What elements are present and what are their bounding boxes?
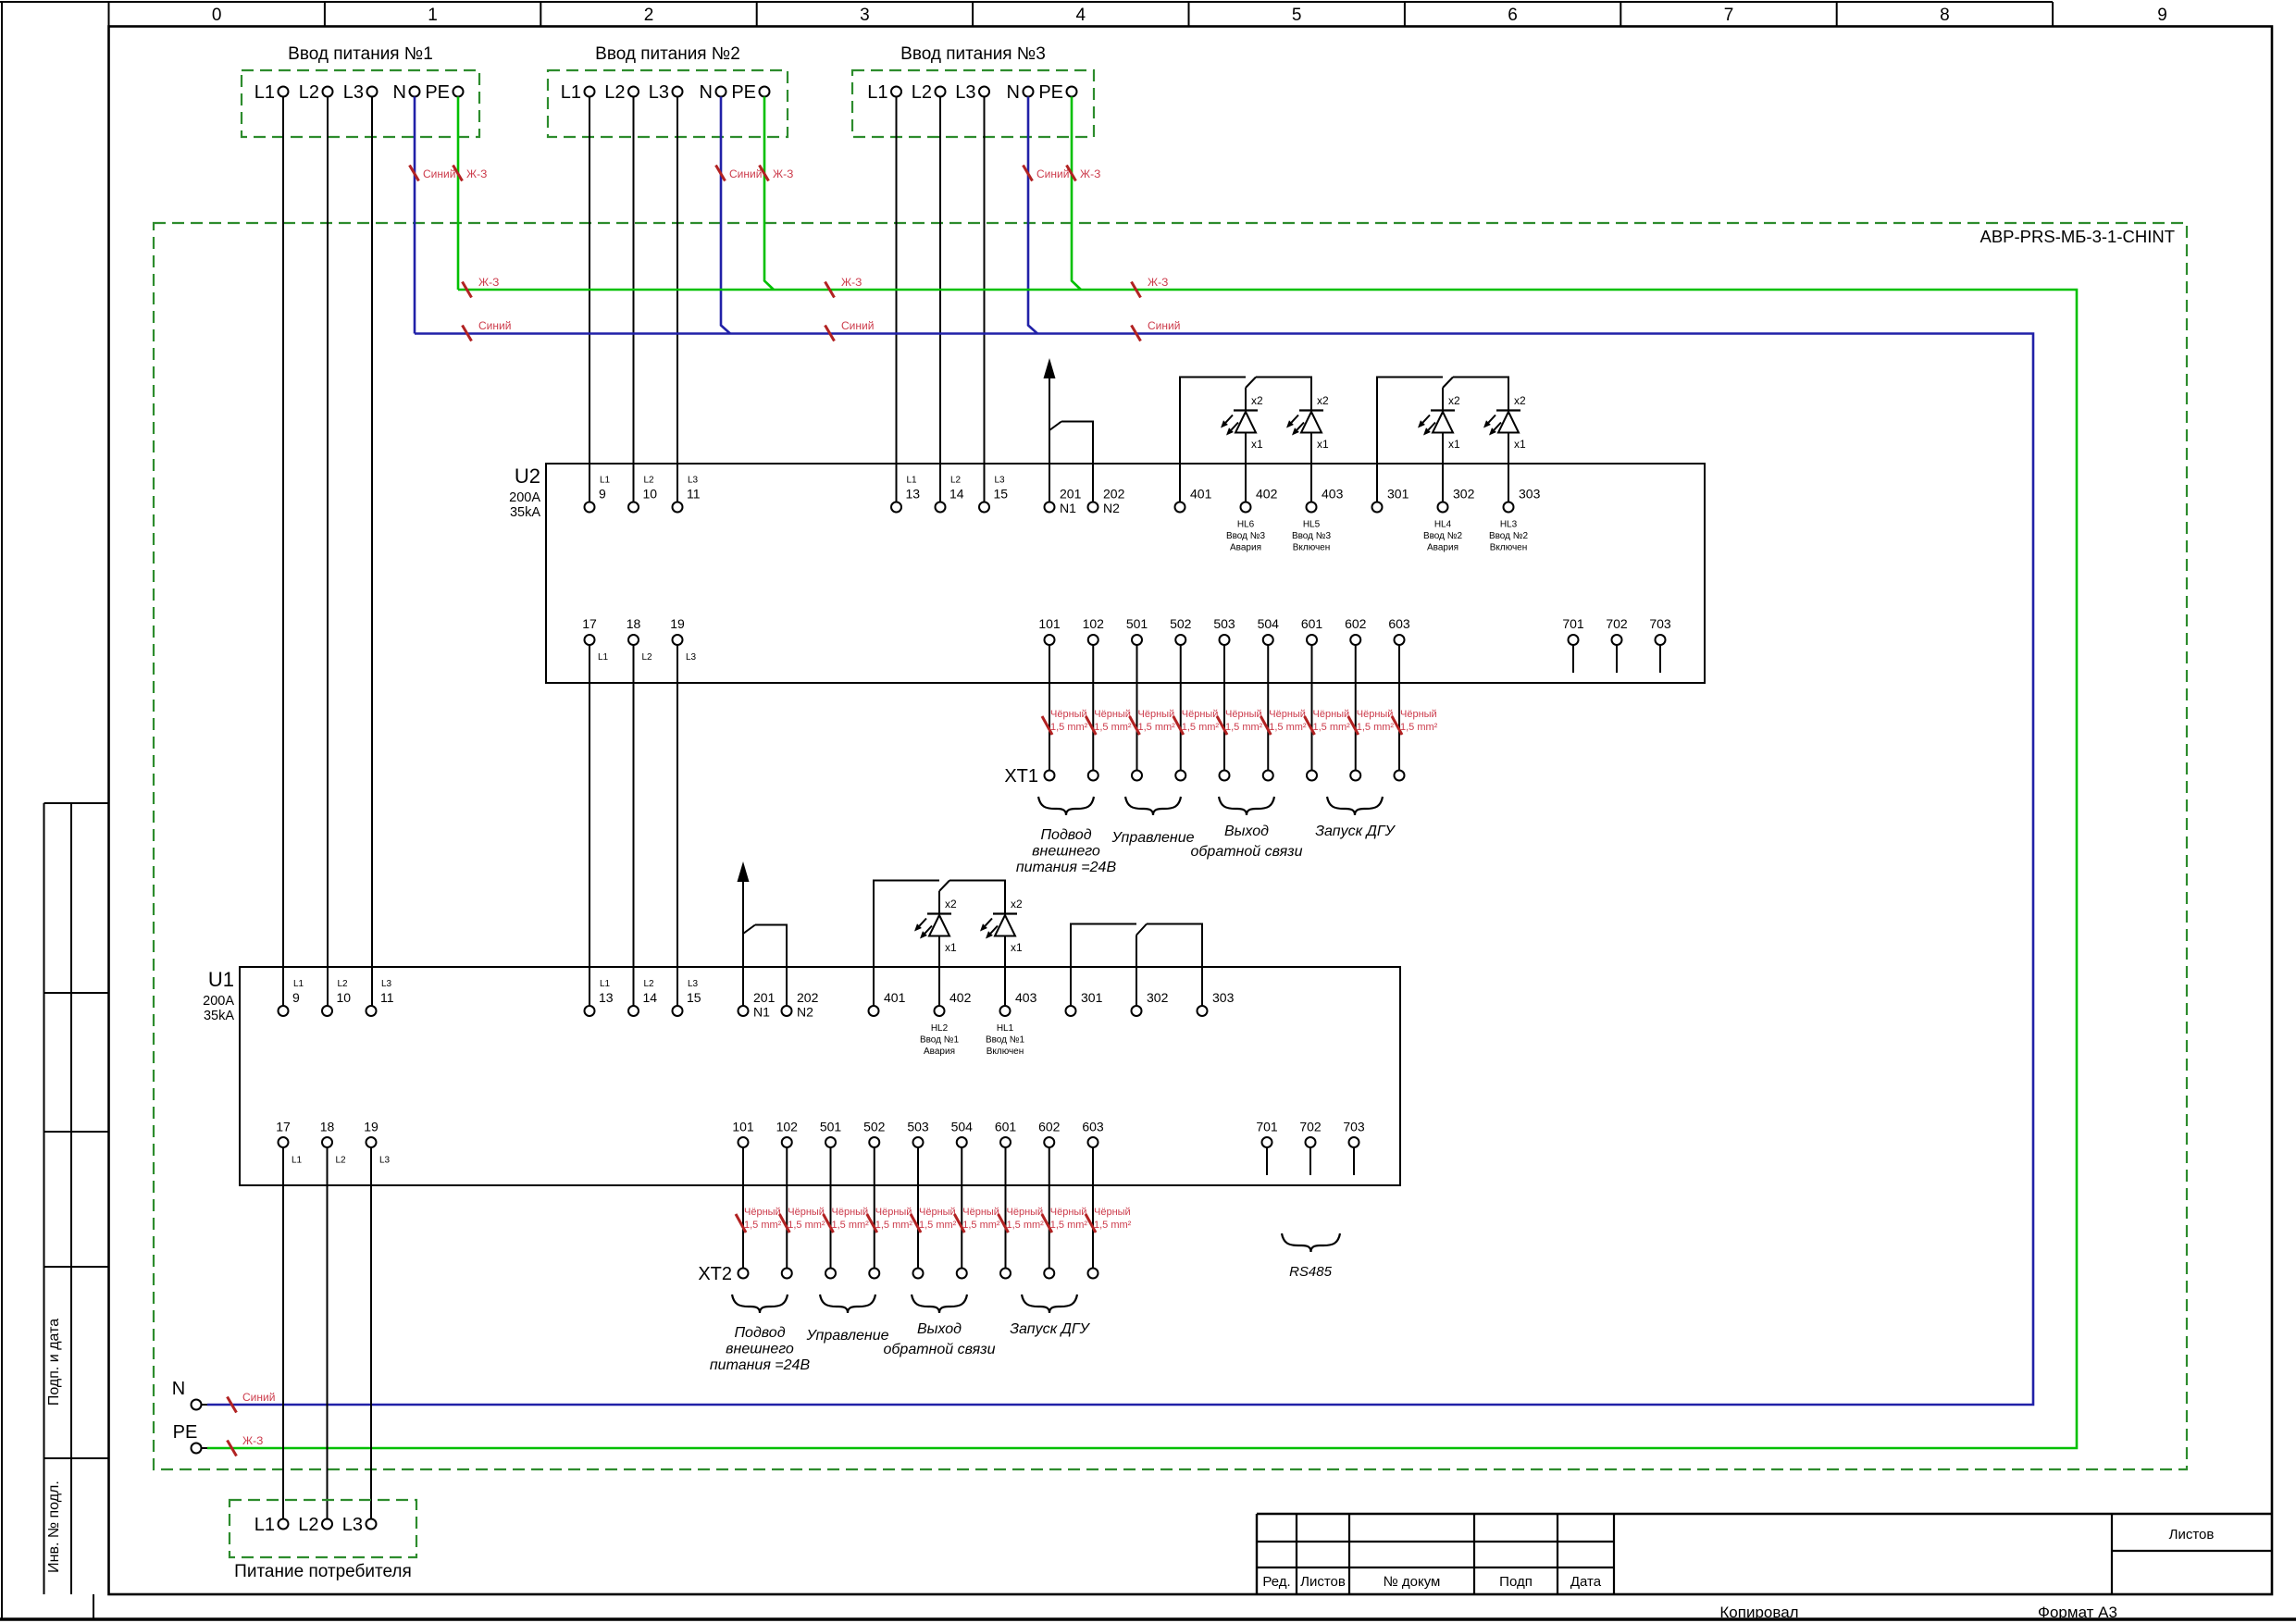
wire U1 17/18/19 to consumer L1 bbox=[282, 1147, 284, 1519]
svg-text:L3: L3 bbox=[686, 652, 697, 663]
U1 pin 701 bbox=[1256, 1120, 1278, 1148]
svg-text:501: 501 bbox=[820, 1120, 842, 1134]
svg-text:7: 7 bbox=[1724, 6, 1734, 25]
svg-text:1,5 mm²: 1,5 mm² bbox=[1357, 722, 1395, 733]
U1 pin 10 (L2) bbox=[322, 979, 351, 1016]
wire label Синий (input 2 N) bbox=[716, 166, 763, 181]
svg-text:701: 701 bbox=[1256, 1120, 1278, 1134]
svg-text:Включен: Включен bbox=[1490, 543, 1528, 553]
svg-text:Листов: Листов bbox=[2169, 1527, 2215, 1542]
changeover diagonal at 302 bbox=[1136, 924, 1147, 935]
svg-text:Запуск ДГУ: Запуск ДГУ bbox=[1010, 1321, 1090, 1337]
svg-text:101: 101 bbox=[732, 1120, 754, 1134]
svg-text:x1: x1 bbox=[1317, 438, 1329, 451]
wire input1 N (blue) down to N bus bbox=[414, 97, 416, 334]
wire label Ж-З on PE bus bbox=[825, 276, 863, 298]
U1 pin 14 (L2) bbox=[628, 979, 657, 1016]
svg-text:HL1: HL1 bbox=[997, 1023, 1014, 1034]
U1 pin 11 (L3) bbox=[366, 979, 394, 1016]
svg-text:N1: N1 bbox=[1060, 501, 1076, 515]
svg-text:L2: L2 bbox=[950, 476, 962, 486]
svg-text:N: N bbox=[700, 82, 713, 103]
svg-text:1,5 mm²: 1,5 mm² bbox=[1400, 722, 1438, 733]
U2 pin 18 (L2) bbox=[627, 616, 652, 663]
group brace: Управление (XT1) bbox=[1125, 797, 1181, 815]
svg-text:Чёрный: Чёрный bbox=[962, 1207, 999, 1218]
svg-text:Синий: Синий bbox=[478, 319, 511, 332]
svg-text:17: 17 bbox=[582, 616, 597, 631]
svg-text:питания =24В: питания =24В bbox=[710, 1357, 811, 1373]
U2 pin 102 bbox=[1083, 616, 1105, 645]
consumer box Питание потребителя bbox=[230, 1500, 416, 1581]
N bus (blue) across cabinet bbox=[207, 334, 2033, 1406]
U2 pin 702 bbox=[1606, 616, 1628, 645]
svg-text:L1: L1 bbox=[867, 82, 887, 103]
wire U1 301 riser and bus bbox=[1071, 924, 1136, 1007]
wire U1 outputs to XT2 bbox=[917, 1147, 919, 1269]
wire label Синий on N bus bbox=[825, 319, 875, 341]
svg-text:1: 1 bbox=[428, 6, 438, 25]
svg-text:Ввод питания №3: Ввод питания №3 bbox=[900, 44, 1046, 64]
svg-text:Ж-З: Ж-З bbox=[841, 276, 862, 289]
svg-text:4: 4 bbox=[1076, 6, 1086, 25]
svg-text:x1: x1 bbox=[1514, 438, 1526, 451]
U1 pin 401 bbox=[869, 990, 906, 1016]
svg-text:L1: L1 bbox=[293, 979, 304, 989]
svg-text:1,5 mm²: 1,5 mm² bbox=[1094, 722, 1132, 733]
wire label Чёрный 1,5 mm² bbox=[1217, 709, 1263, 735]
wire label Чёрный 1,5 mm² bbox=[1042, 709, 1088, 735]
terminal N of input 2 bbox=[700, 82, 726, 103]
U1 pin 601 bbox=[995, 1120, 1017, 1148]
wire label Синий (input 3 N) bbox=[1024, 166, 1070, 181]
svg-text:L3: L3 bbox=[995, 476, 1006, 486]
ATS controller U2 body bbox=[509, 464, 1705, 683]
U2 pin 403 bbox=[1307, 487, 1344, 513]
wire label Чёрный 1,5 mm² bbox=[867, 1207, 913, 1233]
svg-text:L2: L2 bbox=[298, 1515, 318, 1535]
svg-text:Чёрный: Чёрный bbox=[1400, 709, 1437, 720]
svg-text:x1: x1 bbox=[1448, 438, 1460, 451]
svg-text:Чёрный: Чёрный bbox=[919, 1207, 956, 1218]
wire U2 17/18/19 to U1 13/14/15 bbox=[589, 645, 590, 1006]
U2 pin 10 (L2) bbox=[628, 476, 657, 513]
LED HL1 (Ввод №1 Включен) bbox=[980, 898, 1024, 1057]
svg-text:x2: x2 bbox=[1448, 394, 1460, 407]
svg-text:Авария: Авария bbox=[1427, 543, 1458, 553]
wire U2 outputs to XT1 bbox=[1267, 645, 1269, 771]
svg-text:201: 201 bbox=[1060, 487, 1082, 502]
svg-text:x2: x2 bbox=[945, 898, 957, 911]
svg-text:№ докум: № докум bbox=[1384, 1574, 1441, 1590]
svg-text:обратной связи: обратной связи bbox=[884, 1342, 996, 1357]
ATS controller U1 body bbox=[203, 967, 1400, 1185]
stub U1 pin 70x bbox=[1353, 1147, 1355, 1175]
wire U1 outputs to XT2 bbox=[874, 1147, 875, 1269]
wire label Чёрный 1,5 mm² bbox=[1173, 709, 1220, 735]
wire input2 phase to U2 bbox=[633, 97, 635, 502]
output terminal PE bbox=[173, 1422, 207, 1454]
bus to HL5 (403) bbox=[1256, 378, 1311, 411]
svg-text:703: 703 bbox=[1649, 616, 1671, 631]
svg-text:Ж-З: Ж-З bbox=[242, 1434, 263, 1447]
wire label Ж-З on PE bus bbox=[1132, 276, 1169, 298]
wire HL1 vertical lower bbox=[1004, 914, 1006, 1006]
U2 pin 302 bbox=[1438, 487, 1475, 513]
svg-text:303: 303 bbox=[1519, 487, 1541, 502]
U1 pin 603 bbox=[1082, 1120, 1104, 1148]
svg-text:14: 14 bbox=[643, 990, 658, 1005]
terminal L1 of input 3 bbox=[867, 82, 901, 103]
bus to HL1 (403) bbox=[949, 881, 1005, 914]
U1 pin 402 bbox=[935, 990, 972, 1016]
svg-text:Синий: Синий bbox=[242, 1391, 275, 1404]
svg-text:11: 11 bbox=[380, 990, 394, 1005]
svg-text:Чёрный: Чёрный bbox=[1094, 1207, 1131, 1218]
wire input2 PE (green) joining PE bus bbox=[764, 97, 774, 291]
svg-text:HL5: HL5 bbox=[1303, 520, 1321, 530]
svg-text:102: 102 bbox=[776, 1120, 799, 1134]
wire label Чёрный 1,5 mm² bbox=[1086, 1207, 1132, 1233]
U1 pin 703 bbox=[1343, 1120, 1365, 1148]
terminal L1 of input 2 bbox=[561, 82, 595, 103]
svg-text:5: 5 bbox=[1292, 6, 1302, 25]
svg-text:Подвод: Подвод bbox=[734, 1325, 785, 1341]
svg-text:0: 0 bbox=[212, 6, 222, 25]
svg-text:Ввод №3: Ввод №3 bbox=[1226, 531, 1266, 541]
terminal PE of input 1 bbox=[425, 82, 463, 103]
svg-text:Ввод №2: Ввод №2 bbox=[1489, 531, 1529, 541]
LED HL5 (Ввод №3 Включен) bbox=[1286, 394, 1331, 553]
group brace: Управление (XT2) bbox=[820, 1295, 875, 1313]
wire U2 401 riser and bus to HL6/HL5 bbox=[1180, 378, 1246, 502]
svg-text:302: 302 bbox=[1147, 990, 1169, 1005]
svg-text:13: 13 bbox=[906, 487, 921, 502]
U2 pin 13 (L1) bbox=[891, 476, 920, 513]
svg-text:L3: L3 bbox=[688, 979, 699, 989]
svg-text:1,5 mm²: 1,5 mm² bbox=[788, 1220, 825, 1231]
wire U2 outputs to XT1 bbox=[1311, 645, 1313, 771]
changeover diagonal at 302 bbox=[1443, 378, 1453, 389]
wire label Ж-З (input 3 PE) bbox=[1067, 166, 1101, 181]
svg-text:Чёрный: Чёрный bbox=[1050, 709, 1087, 720]
svg-text:17: 17 bbox=[276, 1120, 291, 1134]
svg-text:8: 8 bbox=[1940, 6, 1950, 25]
svg-text:15: 15 bbox=[687, 990, 701, 1005]
svg-text:201: 201 bbox=[753, 990, 776, 1005]
wire N1 vertical bbox=[1049, 430, 1050, 502]
svg-text:Запуск ДГУ: Запуск ДГУ bbox=[1315, 824, 1396, 839]
stub U2 pin 70x bbox=[1659, 645, 1661, 673]
svg-text:L3: L3 bbox=[381, 979, 392, 989]
svg-text:101: 101 bbox=[1038, 616, 1061, 631]
U2 pin 14 (L2) bbox=[936, 476, 964, 513]
svg-text:L1: L1 bbox=[254, 1515, 275, 1535]
wire U1 outputs to XT2 bbox=[1092, 1147, 1094, 1269]
group brace: Выход обратной связи (XT2) bbox=[912, 1295, 967, 1313]
wire U2 outputs to XT1 bbox=[1355, 645, 1357, 771]
U2 pin 19 (L3) bbox=[670, 616, 696, 663]
svg-text:1,5 mm²: 1,5 mm² bbox=[1094, 1220, 1132, 1231]
wire label Чёрный 1,5 mm² bbox=[824, 1207, 870, 1233]
terminal N of input 1 bbox=[393, 82, 420, 103]
svg-text:Чёрный: Чёрный bbox=[1313, 709, 1350, 720]
wire input1 9 phase to U1 bbox=[282, 97, 284, 1007]
wire HL6 vertical bbox=[1245, 388, 1247, 502]
wire label Чёрный 1,5 mm² bbox=[1392, 709, 1438, 735]
svg-text:202: 202 bbox=[797, 990, 819, 1005]
svg-text:L1: L1 bbox=[600, 979, 611, 989]
group brace: Выход обратной связи (XT1) bbox=[1219, 797, 1274, 815]
U1 pin 202 (N2) bbox=[782, 990, 819, 1020]
U1 pin 301 bbox=[1066, 990, 1103, 1016]
wire U1 outputs to XT2 bbox=[961, 1147, 962, 1269]
stub U2 pin 70x bbox=[1616, 645, 1618, 673]
svg-text:Ввод питания №2: Ввод питания №2 bbox=[595, 44, 740, 64]
stub U1 pin 70x bbox=[1309, 1147, 1311, 1175]
U2 pin 504 bbox=[1258, 616, 1280, 645]
terminal L2 of input 3 bbox=[912, 82, 946, 103]
U1 pin 302 bbox=[1132, 990, 1169, 1016]
svg-text:HL6: HL6 bbox=[1237, 520, 1255, 530]
U1 pin 15 (L3) bbox=[673, 979, 701, 1016]
U1 pin 18 (L2) bbox=[320, 1120, 346, 1166]
changeover diagonal N1 bbox=[1049, 422, 1061, 431]
U1 pin 403 bbox=[1000, 990, 1037, 1016]
U1 pin 502 bbox=[863, 1120, 886, 1148]
svg-text:L3: L3 bbox=[955, 82, 975, 103]
svg-text:1,5 mm²: 1,5 mm² bbox=[832, 1220, 870, 1231]
svg-text:внешнего: внешнего bbox=[726, 1342, 794, 1357]
svg-text:N2: N2 bbox=[797, 1005, 813, 1020]
svg-text:Ж-З: Ж-З bbox=[1080, 167, 1100, 180]
U2 pin 602 bbox=[1345, 616, 1367, 645]
svg-text:U1: U1 bbox=[208, 968, 234, 991]
wire label Ж-З (output PE) bbox=[228, 1434, 264, 1456]
U2 neutral arrow (to N bus) bbox=[1049, 378, 1050, 430]
wire U1 outputs to XT2 bbox=[786, 1147, 788, 1269]
svg-text:603: 603 bbox=[1082, 1120, 1104, 1134]
U1 pin 13 (L1) bbox=[585, 979, 614, 1016]
wire label Чёрный 1,5 mm² bbox=[1042, 1207, 1088, 1233]
svg-text:601: 601 bbox=[995, 1120, 1017, 1134]
U2 pin 402 bbox=[1241, 487, 1278, 513]
wire U1 outputs to XT2 bbox=[742, 1147, 744, 1269]
wire label Чёрный 1,5 mm² bbox=[1348, 709, 1395, 735]
svg-text:Ж-З: Ж-З bbox=[1148, 276, 1168, 289]
U1 pin 101 bbox=[732, 1120, 754, 1148]
terminal L2 of input 1 bbox=[299, 82, 333, 103]
svg-text:504: 504 bbox=[951, 1120, 974, 1134]
U1 pin 303 bbox=[1198, 990, 1235, 1016]
terminal PE of input 2 bbox=[731, 82, 769, 103]
wire HL2 vertical bbox=[938, 891, 940, 1006]
terminal L3 of input 2 bbox=[649, 82, 683, 103]
terminal strip XT1 bbox=[1004, 766, 1404, 787]
wire label Чёрный 1,5 mm² bbox=[954, 1207, 1000, 1233]
input source box 2: Ввод питания №2 bbox=[548, 44, 788, 137]
svg-text:L2: L2 bbox=[644, 476, 655, 486]
U1 pin 19 (L3) bbox=[364, 1120, 390, 1166]
stub U2 pin 70x bbox=[1572, 645, 1574, 673]
svg-text:Ред.: Ред. bbox=[1262, 1574, 1290, 1590]
wire HL5 vertical lower bbox=[1310, 411, 1312, 502]
svg-text:602: 602 bbox=[1038, 1120, 1061, 1134]
svg-text:1,5 mm²: 1,5 mm² bbox=[1050, 722, 1088, 733]
wire input3 phase to U2 bbox=[939, 97, 941, 502]
terminal PE of input 3 bbox=[1038, 82, 1076, 103]
svg-text:402: 402 bbox=[1256, 487, 1278, 502]
stub U1 pin 70x bbox=[1266, 1147, 1268, 1175]
svg-text:14: 14 bbox=[949, 487, 964, 502]
svg-text:L1: L1 bbox=[598, 652, 609, 663]
U1 pin 501 bbox=[820, 1120, 842, 1148]
svg-text:15: 15 bbox=[994, 487, 1009, 502]
U2 pin 501 bbox=[1126, 616, 1148, 645]
group brace: Запуск ДГУ (XT2) bbox=[1022, 1295, 1077, 1313]
consumer terminal L2 bbox=[298, 1515, 332, 1535]
svg-text:13: 13 bbox=[599, 990, 614, 1005]
svg-text:Чёрный: Чёрный bbox=[832, 1207, 869, 1218]
svg-text:PE: PE bbox=[173, 1422, 198, 1443]
svg-text:Ввод №3: Ввод №3 bbox=[1292, 531, 1332, 541]
U2 pin 401 bbox=[1175, 487, 1212, 513]
svg-text:L1: L1 bbox=[561, 82, 581, 103]
svg-text:обратной связи: обратной связи bbox=[1191, 844, 1303, 860]
svg-text:503: 503 bbox=[1213, 616, 1235, 631]
svg-text:10: 10 bbox=[337, 990, 352, 1005]
svg-text:L2: L2 bbox=[299, 82, 319, 103]
U1 neutral arrow bbox=[742, 882, 744, 934]
svg-text:9: 9 bbox=[599, 487, 606, 502]
svg-text:x2: x2 bbox=[1011, 898, 1023, 911]
svg-text:102: 102 bbox=[1083, 616, 1105, 631]
group brace: Запуск ДГУ (XT1) bbox=[1327, 797, 1383, 815]
svg-text:Питание потребителя: Питание потребителя bbox=[234, 1562, 412, 1581]
svg-text:внешнего: внешнего bbox=[1032, 844, 1100, 860]
svg-text:Чёрный: Чёрный bbox=[788, 1207, 825, 1218]
svg-text:XT2: XT2 bbox=[698, 1264, 732, 1284]
svg-text:9: 9 bbox=[2157, 6, 2167, 25]
svg-text:Авария: Авария bbox=[1230, 543, 1261, 553]
svg-text:Выход: Выход bbox=[917, 1321, 962, 1337]
svg-text:10: 10 bbox=[643, 487, 658, 502]
svg-text:Ввод питания №1: Ввод питания №1 bbox=[288, 44, 433, 64]
U1 pin 201 (N1) bbox=[738, 990, 776, 1020]
svg-text:x1: x1 bbox=[945, 941, 957, 954]
link to N2 bbox=[1061, 422, 1093, 502]
U2 pin 17 (L1) bbox=[582, 616, 608, 663]
svg-text:Ж-З: Ж-З bbox=[466, 167, 487, 180]
U2 pin 11 (L3) bbox=[673, 476, 701, 513]
wire input1 11 phase to U1 bbox=[371, 97, 373, 1007]
svg-text:L2: L2 bbox=[604, 82, 625, 103]
wire U2 outputs to XT1 bbox=[1092, 645, 1094, 771]
U2 pin 303 bbox=[1504, 487, 1541, 513]
svg-text:19: 19 bbox=[364, 1120, 379, 1134]
svg-text:Чёрный: Чёрный bbox=[1138, 709, 1175, 720]
svg-text:Ввод №1: Ввод №1 bbox=[920, 1035, 960, 1046]
consumer terminal L1 bbox=[254, 1515, 289, 1535]
group brace: Подвод внешнего питания =24В (XT1) bbox=[1038, 797, 1094, 815]
U2 pin 603 bbox=[1388, 616, 1410, 645]
svg-text:18: 18 bbox=[320, 1120, 335, 1134]
svg-text:АВР-PRS-МБ-3-1-CHINT: АВР-PRS-МБ-3-1-CHINT bbox=[1980, 227, 2175, 246]
bus to HL3 (303) bbox=[1453, 378, 1508, 411]
LED HL3 (Ввод №2 Включен) bbox=[1483, 394, 1528, 553]
svg-text:35kA: 35kA bbox=[510, 505, 540, 520]
svg-text:402: 402 bbox=[949, 990, 972, 1005]
wire label Ж-З (input 2 PE) bbox=[760, 166, 794, 181]
wire U2 outputs to XT1 bbox=[1223, 645, 1225, 771]
svg-text:L1: L1 bbox=[600, 476, 611, 486]
wire label Ж-З on PE bus bbox=[463, 276, 500, 298]
svg-text:35kA: 35kA bbox=[204, 1009, 234, 1023]
svg-text:Синий: Синий bbox=[1148, 319, 1180, 332]
svg-text:Копировал: Копировал bbox=[1719, 1604, 1798, 1621]
svg-text:L1: L1 bbox=[907, 476, 918, 486]
wire U2 outputs to XT1 bbox=[1049, 645, 1050, 771]
svg-text:702: 702 bbox=[1299, 1120, 1322, 1134]
svg-text:Формат А3: Формат А3 bbox=[2038, 1604, 2117, 1621]
svg-text:PE: PE bbox=[1038, 82, 1063, 103]
svg-text:HL2: HL2 bbox=[931, 1023, 949, 1034]
PE bus (green) across cabinet bbox=[207, 290, 2077, 1448]
terminal L1 of input 1 bbox=[254, 82, 289, 103]
enclosure АВР-PRS-МБ-3-1-CHINT (dashed boundary) bbox=[154, 223, 2187, 1469]
svg-text:Чёрный: Чёрный bbox=[1050, 1207, 1087, 1218]
svg-text:L2: L2 bbox=[642, 652, 653, 663]
svg-text:PE: PE bbox=[425, 82, 450, 103]
wire input1 10 phase to U1 bbox=[327, 97, 329, 1007]
svg-text:L1: L1 bbox=[292, 1156, 303, 1166]
svg-text:6: 6 bbox=[1508, 6, 1518, 25]
svg-text:9: 9 bbox=[292, 990, 300, 1005]
svg-text:1,5 mm²: 1,5 mm² bbox=[1050, 1220, 1088, 1231]
svg-text:x2: x2 bbox=[1317, 394, 1329, 407]
svg-text:703: 703 bbox=[1343, 1120, 1365, 1134]
svg-text:Чёрный: Чёрный bbox=[1357, 709, 1394, 720]
wire label Чёрный 1,5 mm² bbox=[779, 1207, 825, 1233]
output terminal N bbox=[172, 1379, 207, 1410]
svg-text:N: N bbox=[172, 1379, 185, 1399]
svg-text:1,5 mm²: 1,5 mm² bbox=[1138, 722, 1176, 733]
U2 pin 502 bbox=[1170, 616, 1192, 645]
svg-text:503: 503 bbox=[907, 1120, 929, 1134]
svg-text:RS485: RS485 bbox=[1289, 1264, 1333, 1280]
svg-text:603: 603 bbox=[1388, 616, 1410, 631]
svg-text:Чёрный: Чёрный bbox=[1007, 1207, 1044, 1218]
wire label Синий (output N) bbox=[228, 1391, 276, 1413]
LED HL2 (Ввод №1 Авария) bbox=[914, 898, 959, 1057]
U2 pin 601 bbox=[1301, 616, 1323, 645]
wire U2 301 riser and bus to HL4/HL3 bbox=[1377, 378, 1443, 502]
svg-text:502: 502 bbox=[1170, 616, 1192, 631]
U2 pin 15 (L3) bbox=[979, 476, 1008, 513]
svg-text:Листов: Листов bbox=[1300, 1574, 1346, 1590]
changeover diagonal at 402 bbox=[939, 881, 949, 892]
svg-text:Чёрный: Чёрный bbox=[875, 1207, 912, 1218]
wire label Чёрный 1,5 mm² bbox=[1086, 709, 1132, 735]
group brace: Подвод внешнего питания =24В (XT2) bbox=[732, 1295, 788, 1313]
U2 pin 101 bbox=[1038, 616, 1061, 645]
terminal strip XT2 bbox=[698, 1264, 1098, 1284]
U1 pin 702 bbox=[1299, 1120, 1322, 1148]
wire input2 phase to U2 bbox=[589, 97, 590, 502]
LED HL6 (Ввод №3 Авария) bbox=[1221, 394, 1265, 553]
svg-text:602: 602 bbox=[1345, 616, 1367, 631]
svg-text:Синий: Синий bbox=[841, 319, 874, 332]
